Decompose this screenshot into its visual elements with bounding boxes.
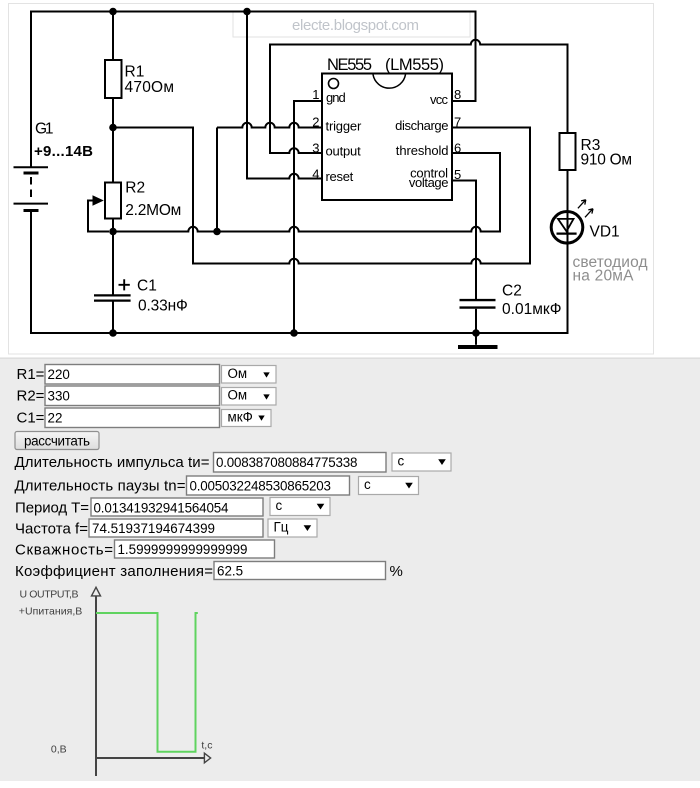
svg-text:с: с [398,454,405,469]
svg-text:R2: R2 [125,180,145,197]
svg-text:electe.blogspot.com: electe.blogspot.com [292,17,419,34]
wire battery to bottom rail [30,211,32,335]
wire R1 to R2 [112,98,114,183]
form input C1 [45,408,220,428]
svg-text:Длительность импульса tи=: Длительность импульса tи= [15,454,210,471]
svg-text:reset: reset [326,169,354,184]
svg-text:с: с [276,498,283,513]
wire VCC top rail [30,12,476,102]
result input duty [115,540,275,558]
svg-text:U OUTPUT,В: U OUTPUT,В [20,588,79,600]
svg-text:2: 2 [312,115,319,130]
form input R1 [45,365,220,385]
wire gnd net: pin 1 to bottom rail [294,101,322,333]
svg-text:Ом: Ом [228,366,248,381]
form input R2 [45,386,220,406]
wire left rail to battery [30,11,32,168]
wire bottom ground rail [30,332,569,334]
wire R2 wiper [88,201,109,232]
svg-text:330: 330 [48,388,70,403]
chart x-axis [96,757,204,759]
ground symbol [475,333,477,345]
svg-text:мкФ: мкФ [228,410,253,425]
chart y-axis [95,596,97,776]
svg-text:2.2МОм: 2.2МОм [125,202,181,219]
svg-text:voltage: voltage [409,175,449,190]
svg-text:с: с [364,477,371,492]
svg-text:0.008387080884775338: 0.008387080884775338 [216,455,358,470]
junction dots [109,8,480,337]
svg-text:220: 220 [48,367,70,382]
svg-text:8: 8 [454,87,461,102]
battery G1 [14,167,49,210]
wire threshold net: C1 top junction to pin 6 [113,153,500,232]
wire R2 to C1 [112,218,114,295]
calc button [15,432,99,450]
wire C1 to bottom rail [112,301,114,334]
svg-text:C1: C1 [137,278,157,295]
svg-text:gnd: gnd [326,90,346,105]
svg-text:Период T=: Период T= [15,500,89,517]
wire trigger net: pin 2 stub [217,123,322,232]
svg-text:4: 4 [312,167,319,182]
result input pause length [187,476,350,495]
svg-text:trigger: trigger [326,118,362,133]
wire rail to R1 [112,11,114,61]
svg-text:C1=: C1= [17,409,45,426]
result input fill factor [214,562,386,580]
svg-text:6: 6 [454,140,461,155]
chip pin-1 indicator circle [329,79,339,89]
svg-text:vcc: vcc [430,92,449,107]
svg-text:threshold: threshold [396,143,449,158]
svg-text:R2=: R2= [17,387,45,404]
form panel background [0,358,700,781]
svg-text:5: 5 [454,167,461,182]
svg-text:3: 3 [312,140,319,155]
svg-text:output: output [326,143,362,158]
svg-text:Коэффициент заполнения=: Коэффициент заполнения= [15,563,213,580]
form select R2 units [222,388,277,406]
op-amp timer chip U1 NE555 [322,74,452,201]
svg-text:на 20мА: на 20мА [573,268,635,285]
result input pulse length [214,453,387,473]
svg-text:Длительность паузы tn=: Длительность паузы tn= [15,477,186,494]
svg-text:R1: R1 [125,64,145,81]
svg-text:1.5999999999999999: 1.5999999999999999 [118,542,248,557]
VD1 diode triangle [558,219,574,231]
C1 polarity plus [119,279,130,290]
svg-text:(LM555): (LM555) [385,56,444,74]
watermark frame box [233,12,470,38]
svg-text:VD1: VD1 [590,224,620,241]
form select C1 units [222,410,272,427]
result select period units [270,498,330,516]
LED VD1 circle [551,212,583,244]
wire discharge net: R1/R2 junction to pin 7 [113,128,530,264]
svg-text:Ом: Ом [228,388,248,403]
svg-text:0.005032248530865203: 0.005032248530865203 [190,478,332,493]
svg-text:Скважность=: Скважность= [15,542,113,559]
svg-text:0.01341932941564054: 0.01341932941564054 [94,500,230,515]
svg-text:910 Ом: 910 Ом [581,152,633,169]
svg-text:C2: C2 [502,283,522,300]
svg-text:рассчитать: рассчитать [24,434,90,449]
svg-text:0,В: 0,В [51,744,67,756]
svg-text:%: % [390,563,403,580]
R2 wiper arrow [93,195,104,205]
svg-text:470Ом: 470Ом [125,79,175,96]
svg-text:discharge: discharge [395,118,448,133]
svg-text:74.51937194674399: 74.51937194674399 [92,521,215,536]
capacitor C1 [94,295,131,300]
form select R1 units [222,366,277,384]
svg-text:7: 7 [454,115,461,130]
svg-text:R1=: R1= [17,366,45,383]
resistor R1 [105,60,122,98]
chart green output trace [96,613,198,752]
result select pause units [359,477,419,495]
result select frequency units [268,519,317,537]
svg-text:Частота f=: Частота f= [15,520,88,537]
svg-text:+Uпитания,В: +Uпитания,В [19,606,83,618]
svg-text:Гц: Гц [274,520,289,535]
VD1 light arrows [578,200,593,218]
capacitor C2 [460,300,496,308]
svg-text:NE555: NE555 [327,56,372,74]
svg-text:22: 22 [48,410,63,425]
svg-text:62.5: 62.5 [217,564,243,579]
schematic canvas [9,4,654,355]
result input frequency [89,519,263,537]
svg-text:t,c: t,c [201,739,212,751]
wire C2 to bottom rail [475,309,477,333]
svg-text:0.01мкФ: 0.01мкФ [502,301,562,318]
result input period [91,498,263,516]
wire control voltage net: pin 5 to C2 [452,181,476,300]
svg-text:G1: G1 [35,121,54,138]
chip notch [373,75,406,89]
potentiometer R2 [105,183,121,219]
svg-text:+9...14В: +9...14В [34,143,93,160]
svg-text:0.33нФ: 0.33нФ [138,298,188,315]
wire reset net: top rail to pin 4 [247,12,322,179]
resistor R3 [560,133,576,170]
result select pulse units [392,453,451,471]
VD1 cathode bar [557,233,577,235]
wire output net: pin 3 to R3 [270,40,568,153]
wire R3 to LED [567,170,569,334]
svg-text:1: 1 [312,87,319,102]
